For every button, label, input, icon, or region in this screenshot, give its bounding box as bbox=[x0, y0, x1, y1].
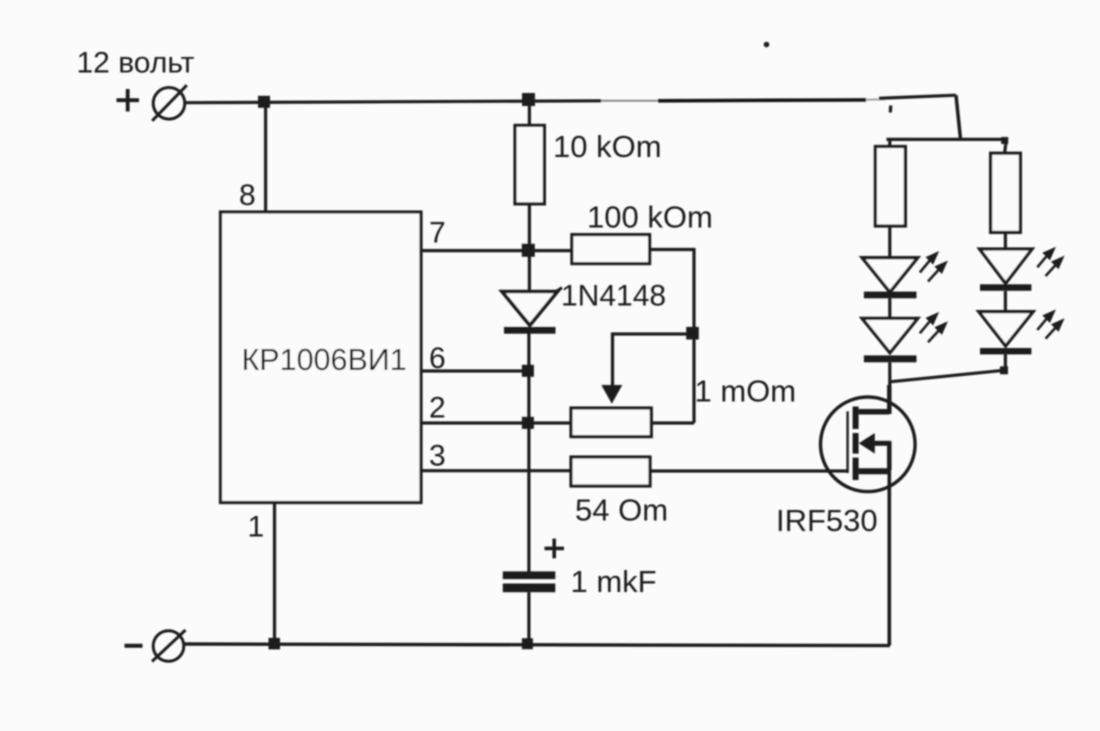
svg-text:54 Om: 54 Om bbox=[575, 493, 668, 528]
svg-text:2: 2 bbox=[429, 392, 446, 425]
svg-text:6: 6 bbox=[429, 342, 446, 375]
svg-text:1: 1 bbox=[248, 511, 265, 544]
svg-text:1 mOm: 1 mOm bbox=[695, 374, 797, 409]
svg-text:IRF530: IRF530 bbox=[776, 503, 878, 538]
svg-text:1N4148: 1N4148 bbox=[561, 280, 666, 313]
svg-text:1 mkF: 1 mkF bbox=[571, 564, 657, 599]
svg-text:7: 7 bbox=[429, 217, 446, 250]
svg-text:КР1006ВИ1: КР1006ВИ1 bbox=[242, 343, 407, 377]
svg-text:3: 3 bbox=[429, 440, 446, 473]
svg-text:10 kOm: 10 kOm bbox=[553, 129, 662, 164]
svg-text:100 kOm: 100 kOm bbox=[587, 200, 713, 235]
svg-text:8: 8 bbox=[239, 179, 256, 212]
svg-text:12 вольт: 12 вольт bbox=[77, 47, 195, 80]
